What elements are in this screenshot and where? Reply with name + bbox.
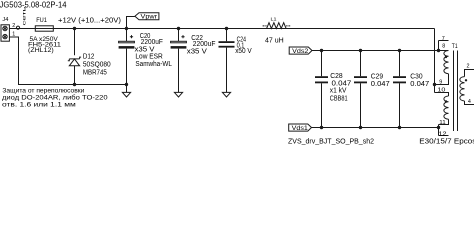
fuse value text block [28,37,62,54]
hierarchical label Vds2 [289,47,312,55]
junction Vds2-C28 [320,49,323,52]
pin 11 [439,119,449,124]
pin 7 [439,40,449,42]
wire +12V bus [9,28,434,30]
capacitor C29 [354,51,367,128]
core lines [454,51,458,132]
svg-text:Vpwr: Vpwr [141,14,158,21]
power label Vpwr [135,13,159,21]
phase dot secondary [465,79,467,81]
svg-text:11: 11 [439,120,446,126]
svg-text:7: 7 [442,36,445,42]
secondary winding [460,77,465,101]
wire bus to T1 center tap [434,29,436,93]
svg-text:8: 8 [442,44,445,50]
pin 2 secondary [465,70,474,77]
pin 4 secondary [465,101,474,105]
junction Vds2-C29 [359,49,362,52]
svg-text:4: 4 [468,99,471,105]
svg-text:2: 2 [12,23,15,29]
svg-text:2200uF: 2200uF [193,41,216,48]
svg-text:C28: C28 [330,73,343,80]
svg-text:47 uH: 47 uH [265,37,284,44]
svg-text:2: 2 [467,64,470,70]
junction Vds2-C30 [398,49,401,52]
svg-text:Vds2: Vds2 [292,48,309,55]
svg-text:E30/15/7 Epcos: E30/15/7 Epcos [419,139,474,146]
C24 text block [235,36,252,55]
diode D12 (schottky) [68,57,81,66]
svg-text:J4: J4 [2,17,8,23]
svg-text:FU1: FU1 [36,17,47,24]
junction Vds1-T1 pins [437,126,440,129]
svg-text:+12V (+10...+20V): +12V (+10...+20V) [58,16,121,25]
D12 text block [83,54,111,77]
wire to Vpwr label [127,17,135,29]
pin 12 [439,135,449,137]
junction center tap pin9 [433,83,436,86]
junction Vds1-C29 [359,126,362,129]
junction Vds2-T1 pins [437,49,440,52]
svg-text:сеть: сеть [22,5,27,26]
pin 8 [439,50,449,52]
capacitor C28 [315,51,328,128]
svg-text:Low ESR: Low ESR [135,54,162,61]
pin 7-8 join [438,41,440,51]
pin 10 [435,93,449,97]
junction Vds1-C30 [398,126,401,129]
pin 2 end circle [16,26,19,29]
svg-text:0.047: 0.047 [410,81,429,88]
inductor L1 [263,23,291,29]
svg-text:x35 V: x35 V [135,46,155,53]
svg-text:x35 V: x35 V [187,48,207,55]
capacitor C22 [171,29,187,93]
junction bus-D12 [73,27,76,30]
hierarchical label Vds1 [289,124,312,132]
pin 11-12 join [438,125,440,136]
C29 text block [371,74,390,88]
ground under C20 [122,85,130,98]
capacitor C24 [219,29,235,93]
svg-text:C29: C29 [371,74,383,81]
phase dot winding 2 [445,100,447,102]
primary winding 2 [444,96,449,119]
svg-text:x1 kV: x1 kV [330,88,347,95]
C20 text block [135,33,173,68]
C28 text block [330,73,352,102]
fuse FU1 [35,26,53,31]
svg-text:10: 10 [437,88,445,94]
ground under C24 [222,92,230,97]
svg-text:Vds1: Vds1 [292,125,309,132]
svg-text:диод DO-204AR, либо TO-220: диод DO-204AR, либо TO-220 [2,94,108,102]
svg-text:CBB81: CBB81 [330,95,348,102]
wire J4 pin1 to ground rail [9,37,126,85]
svg-text:(ZHL12): (ZHL12) [28,48,54,54]
svg-text:MBR745: MBR745 [83,70,107,77]
svg-text:ZVS_drv_BJT_SO_PB_sh2: ZVS_drv_BJT_SO_PB_sh2 [288,139,374,146]
svg-text:JG503-5.08-02P-14: JG503-5.08-02P-14 [0,0,67,9]
ground under C22 [174,92,182,97]
junction bus-C20/Vpwr [125,27,128,30]
wire D12 to rail [74,66,76,85]
primary winding 1 [444,51,449,74]
junction bus-C24 [225,27,228,30]
note Russian text block [2,88,108,109]
svg-text:Samwha-WL: Samwha-WL [135,61,172,68]
svg-text:L1: L1 [271,16,278,21]
svg-text:0.047: 0.047 [332,80,352,87]
svg-text:9: 9 [439,79,442,85]
svg-text:2200uF: 2200uF [141,39,163,46]
svg-text:50SQ080: 50SQ080 [83,61,111,68]
capacitor C20 [119,29,135,85]
svg-text:x50 V: x50 V [235,48,252,55]
junction Vds1-C28 [320,126,323,129]
junction rail-C20 [125,83,128,86]
phase dot winding 1 [445,56,447,58]
svg-text:12: 12 [439,131,447,137]
transformer T1 [435,41,474,136]
svg-text:отв. 1.6 или 1.1 мм: отв. 1.6 или 1.1 мм [2,101,76,108]
svg-text:0.047: 0.047 [371,81,390,88]
wire Vds1 row [312,127,439,129]
junction bus-C22 [177,27,180,30]
wire bus to D12 [74,29,76,56]
svg-text:D12: D12 [83,54,95,61]
wire Vds2 row [312,50,439,52]
C30 text block [410,74,429,88]
capacitor C30 [393,51,406,128]
connector J4 [1,25,9,41]
svg-text:C30: C30 [410,74,422,81]
pin 9 [435,74,449,85]
junction rail-D12 [73,83,76,86]
svg-text:T1: T1 [452,43,458,50]
C22 text block [187,35,216,55]
